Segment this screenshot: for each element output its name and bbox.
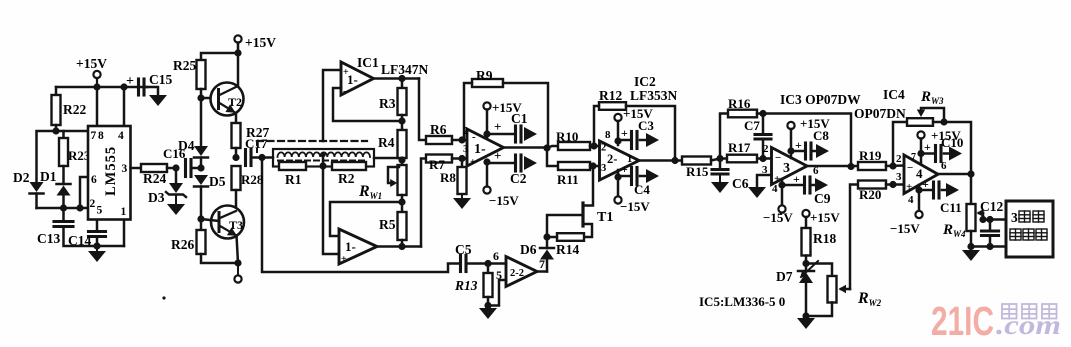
wire node to pin 7: [56, 130, 88, 133]
bottom rail (pins 2/6): [37, 207, 89, 210]
ground arrow of C1: [524, 127, 537, 141]
node C7 top: [759, 110, 766, 117]
resistor R24: [141, 164, 167, 172]
wire C12 bottom: [989, 236, 992, 247]
resistor R17: [727, 155, 757, 163]
svg-text:R18: R18: [813, 231, 836, 246]
ground arrow of C11: [942, 189, 946, 192]
wire op1a + input: [323, 70, 341, 141]
junction rail/pin8: [93, 83, 100, 90]
wire R3 to node: [401, 115, 404, 121]
svg-text:R9: R9: [476, 68, 493, 83]
wire R18 to D7 node: [805, 256, 808, 264]
wire base T3: [201, 219, 219, 221]
capacitor C12 stem: [989, 220, 992, 232]
node D6/R14/gate: [543, 233, 550, 240]
wire D7 top: [805, 264, 808, 272]
svg-text:-: -: [472, 131, 476, 143]
svg-text:R16: R16: [728, 96, 751, 111]
op-amp IC1c triangle: [467, 129, 504, 166]
svg-text:+: +: [470, 157, 476, 168]
resistor R6: [426, 136, 452, 144]
capacitor C4: [630, 168, 633, 185]
node R3/R4/feedback: [398, 117, 405, 124]
wire RW3 to output rail: [933, 122, 971, 174]
resistor R10: [558, 142, 590, 150]
svg-text:R17: R17: [728, 140, 751, 155]
wire pin3 to R24: [131, 167, 142, 170]
wire C17 to sensor node: [251, 156, 273, 159]
capacitor C17: [244, 150, 247, 166]
svg-text:3: 3: [463, 143, 469, 155]
wire R26 stem: [200, 219, 203, 230]
winding (slide wire): [278, 152, 371, 157]
wire D1 to bottom rail: [62, 196, 65, 209]
svg-text:+15V: +15V: [76, 56, 107, 71]
svg-text:D4: D4: [178, 138, 195, 153]
wire R15 to input node: [711, 159, 763, 161]
node emitter/output terminal: [234, 259, 241, 266]
IC 555 body: [88, 126, 131, 220]
wire RW2 bottom: [806, 303, 832, 317]
wire V+ stem (IC3): [790, 129, 793, 158]
junction rail/pin4: [120, 83, 127, 90]
node R1/R2 center: [319, 162, 326, 169]
wire to C10: [921, 152, 934, 155]
JFET T1 channel bar: [581, 203, 584, 226]
resistor R14: [557, 233, 584, 241]
resistor R2: [332, 162, 366, 170]
svg-text:−15V: −15V: [890, 221, 920, 236]
wire pin3 IC3 to ground: [757, 175, 772, 187]
svg-text:4: 4: [772, 183, 778, 195]
T2 emitter arrow: [225, 104, 237, 116]
svg-text:C5: C5: [455, 242, 472, 257]
wire R9 left to pin2: [464, 83, 472, 140]
JFET T1 drain wire: [584, 166, 594, 206]
resistor R13: [484, 273, 493, 297]
svg-text:C8: C8: [813, 128, 829, 143]
ground of pin3 IC3: [748, 187, 766, 198]
resistor R15: [682, 157, 711, 165]
svg-text:6: 6: [493, 249, 499, 263]
wire to C9: [782, 184, 803, 187]
svg-text:+: +: [621, 162, 628, 176]
wire R4 to RW1: [401, 158, 404, 165]
svg-text:−15V: −15V: [620, 199, 650, 214]
inner dashed line of sensor: [278, 160, 368, 162]
wire op1a - input (feedback): [333, 88, 402, 121]
svg-text:+: +: [621, 126, 628, 140]
svg-text:2: 2: [463, 125, 469, 137]
potentiometer RW2 wiper: [841, 288, 850, 291]
diode D1: [57, 183, 71, 186]
transistor T2: [211, 83, 244, 116]
node base T3 / R26: [197, 215, 204, 222]
wire V- stem (IC4): [918, 185, 921, 211]
node sensor-left: [258, 154, 265, 161]
wire R6 to pin2 node: [452, 139, 467, 142]
svg-text:R11: R11: [557, 172, 579, 187]
ground of R13: [487, 306, 489, 309]
resistor R19: [858, 162, 886, 170]
svg-text:R28: R28: [241, 172, 264, 187]
svg-text:C15: C15: [149, 72, 172, 87]
ground arrow of C2: [524, 156, 537, 170]
terminal -15V (IC2): [614, 196, 621, 203]
svg-text:7: 7: [91, 130, 97, 142]
wire RW1 to R5: [401, 195, 404, 212]
wire RW2 top: [806, 264, 832, 277]
T2 collector lead: [220, 86, 239, 95]
node V-/C9: [778, 181, 785, 188]
svg-text:R10: R10: [556, 129, 578, 144]
svg-text:2: 2: [90, 198, 96, 210]
svg-text:IC2: IC2: [634, 74, 656, 89]
op-amp IC2b triangle: [506, 257, 537, 287]
svg-text:2-: 2-: [607, 152, 617, 166]
power rail +15V (555 section): [56, 86, 147, 89]
svg-text:IC1: IC1: [357, 55, 379, 70]
svg-text:+: +: [906, 181, 912, 193]
node R22/R23/pin7: [52, 127, 59, 134]
wire to R10: [547, 146, 558, 148]
terminal +15V (IC4): [917, 131, 924, 138]
capacitor C7 stem bottom: [762, 139, 765, 159]
wire R19 to pin2 IC4: [886, 164, 904, 167]
wire +15V down to T2 collector: [237, 43, 240, 87]
wire to C3: [618, 139, 630, 142]
svg-text:1-: 1-: [345, 239, 356, 254]
wire C15 to ground: [144, 87, 158, 95]
wire R24 to node: [167, 167, 176, 170]
ground arrow of C4: [640, 175, 646, 178]
wire IC4 output: [938, 173, 971, 176]
wire V+ stem (IC4): [920, 139, 923, 165]
wire R11 to pin3 node: [590, 165, 600, 168]
svg-text:−: −: [775, 152, 781, 164]
resistor R8: [458, 167, 467, 194]
zener diode D7 (LM336): [798, 270, 814, 273]
svg-text:R24: R24: [143, 171, 166, 186]
wire pin1 down: [123, 220, 126, 247]
ground arrow of C8: [813, 150, 816, 153]
terminal -15V (IC4): [915, 211, 922, 218]
capacitor C16: [184, 160, 187, 177]
svg-text:C1: C1: [511, 111, 528, 126]
svg-text:+: +: [793, 172, 800, 186]
wire IC1c output: [504, 146, 548, 149]
node D7 ground / RW2 bottom: [802, 312, 809, 319]
op-amp IC4 triangle: [904, 155, 938, 194]
junction ground rail: [93, 242, 100, 249]
terminal -15V (IC1c): [483, 186, 490, 193]
capacitor C1: [514, 126, 517, 142]
potentiometer RW3 wiper: [921, 108, 944, 122]
resistor R5: [398, 212, 407, 240]
capacitor C15: [137, 79, 140, 95]
wire D4 chain from base node: [200, 98, 203, 146]
svg-text:+: +: [126, 74, 134, 89]
node V-/C11: [915, 186, 922, 193]
sensor box: [273, 149, 374, 167]
potentiometer RW1 wiper: [388, 167, 399, 183]
wire R8 stem: [461, 159, 464, 168]
svg-text:2: 2: [763, 143, 769, 155]
wire V+ stem (IC2): [617, 121, 620, 145]
node meter row 1: [979, 216, 986, 223]
node IC2a out: [671, 157, 678, 164]
svg-text:5: 5: [97, 205, 103, 217]
node pin3 IC4: [889, 181, 896, 188]
wire C6 to ground: [719, 174, 721, 182]
junction +15V/R25: [234, 49, 241, 56]
svg-text:T2: T2: [228, 95, 242, 109]
T3 collector lead: [220, 211, 236, 218]
ground (555): [96, 246, 98, 251]
svg-text:C14: C14: [68, 233, 91, 248]
wire R16 right to output rail: [757, 114, 851, 168]
svg-text:−: −: [907, 162, 913, 174]
capacitor C5: [459, 256, 462, 272]
wire to C8: [791, 150, 804, 153]
svg-text:7: 7: [539, 257, 545, 271]
ground of C15: [149, 95, 167, 106]
wire D3 to ground: [175, 195, 177, 205]
wire R13 stem: [487, 264, 490, 274]
wire C13 stem: [62, 208, 65, 221]
wire R12 right rail: [626, 106, 675, 161]
svg-text:2: 2: [601, 143, 606, 154]
terminal +15V (T2): [234, 35, 241, 42]
wire R8 to ground: [461, 194, 463, 198]
resistor R7: [426, 155, 452, 163]
op-amp IC1a triangle: [341, 62, 374, 95]
wire pin 6: [80, 177, 88, 208]
wire to C1: [487, 133, 515, 136]
wire op1a output: [374, 77, 420, 80]
node RW4 ground: [967, 243, 974, 250]
svg-text:R12: R12: [599, 88, 622, 103]
wire R26 to emitter node: [201, 254, 238, 263]
svg-text:.com: .com: [996, 310, 1061, 340]
wire IC3 output: [807, 165, 858, 168]
wire R23 to D1: [62, 166, 65, 184]
terminal +15V (555): [93, 71, 100, 78]
svg-text:C12: C12: [980, 199, 1003, 214]
meter text hanzi shu: [1010, 229, 1021, 240]
wire R28 to T3 collector: [235, 190, 238, 211]
node op1a out / R3: [398, 75, 405, 82]
ground arrow of C10: [944, 152, 949, 155]
wire D4 to C16 node: [200, 158, 203, 169]
svg-text:R5: R5: [379, 217, 396, 232]
svg-text:C9: C9: [814, 191, 831, 206]
svg-text:D2: D2: [13, 170, 30, 185]
ground arrow of C3: [640, 139, 646, 142]
wire op1b out to R7 branch: [421, 159, 426, 247]
wire D6 to output pin7: [546, 237, 549, 248]
output terminal (T3): [237, 263, 239, 275]
svg-text:R22: R22: [63, 102, 86, 117]
svg-text:C6: C6: [732, 176, 749, 191]
node RW1/R5/feedback2: [398, 198, 405, 205]
wire R12 left rail: [594, 106, 599, 146]
svg-text:8: 8: [98, 130, 104, 142]
meter text hanzi xian: [1023, 229, 1034, 240]
wire R5 to output node: [401, 240, 404, 246]
JFET T1 gate wire: [547, 215, 583, 237]
node pin2 IC4 / RW3 rail: [889, 162, 896, 169]
wire center tap to op1-2 + input: [323, 166, 339, 254]
wire R18 stem: [805, 217, 808, 228]
resistor R12: [599, 102, 626, 110]
node V-/C4: [614, 173, 621, 180]
svg-text:IC4: IC4: [883, 87, 905, 102]
wire T3 emitter down: [237, 236, 239, 264]
node R27/C17/R28: [232, 154, 239, 161]
wire center tap column: [322, 155, 325, 167]
potentiometer RW3 body: [907, 118, 933, 126]
resistor R20: [858, 181, 886, 189]
meter box (3.5 digit display): [1006, 201, 1053, 257]
wire R10 to pin2 node: [590, 145, 600, 148]
wire C16 to D4/D5 node: [191, 167, 201, 170]
svg-text:R8: R8: [440, 170, 456, 185]
terminal +15V (IC3): [787, 122, 794, 129]
svg-text:C10: C10: [941, 135, 963, 150]
node base T2 / D4: [197, 94, 204, 101]
wire R27 to node: [235, 148, 238, 158]
diode D4: [194, 146, 208, 156]
diode D2: [30, 182, 44, 192]
svg-text:3: 3: [783, 161, 790, 176]
wire V+ stem (IC1c): [486, 110, 489, 138]
wire C13 to ground rail: [64, 227, 125, 247]
svg-text:+: +: [341, 254, 347, 265]
svg-text:OP07DN: OP07DN: [854, 106, 906, 121]
wire to C11: [919, 189, 932, 192]
svg-text:R4: R4: [378, 135, 395, 150]
ground of D7: [805, 316, 807, 318]
wire D2 to bottom rail: [35, 194, 38, 209]
meter text hanzi biao: [1036, 229, 1047, 240]
svg-text:LF347N: LF347N: [381, 62, 429, 77]
svg-text:R13: R13: [454, 278, 478, 293]
capacitor C7 stem top: [762, 114, 765, 135]
wire RW2 wiper to R20: [850, 185, 858, 290]
node V+/C10: [917, 150, 924, 157]
node pin3 IC2a / T1 drain: [589, 162, 596, 169]
svg-text:3: 3: [1011, 210, 1018, 225]
wire C14 to ground rail: [96, 237, 99, 247]
zener diode D6: [540, 247, 554, 250]
svg-text:−15V: −15V: [489, 193, 519, 208]
wire V- stem (IC2): [617, 170, 620, 197]
wire R13 to ground node: [487, 297, 490, 306]
capacitor C6 stem: [719, 159, 722, 170]
terminal +15V (IC1c): [483, 102, 490, 109]
wire D5 to T3 base node: [200, 187, 203, 220]
node IC3 out / R16 rail / R19: [847, 163, 854, 170]
resistor R28: [232, 166, 241, 190]
svg-text:C11: C11: [940, 200, 962, 215]
svg-text:3: 3: [601, 163, 606, 174]
T3 emitter arrow: [227, 227, 239, 239]
potentiometer RW2 body: [828, 276, 837, 303]
wire sensor right to R4/RW1 node: [374, 157, 402, 160]
wire R23 stem: [62, 131, 65, 138]
capacitor C6: [712, 168, 728, 171]
node IC1c out / R10 / R11: [543, 144, 550, 151]
resistor R3: [398, 88, 407, 115]
svg-text:+15V: +15V: [810, 210, 840, 225]
potentiometer RW1 body: [398, 165, 407, 195]
svg-text:+: +: [795, 138, 802, 152]
svg-text:C7: C7: [744, 118, 760, 133]
junction pin6-branch/bottom rail: [76, 204, 83, 211]
wire to R25: [201, 53, 238, 60]
svg-text:+: +: [494, 148, 501, 163]
resistor R26: [197, 230, 206, 254]
node RW3 right: [940, 118, 947, 125]
node V+/C8: [787, 147, 794, 154]
shield dashed line: [257, 140, 367, 142]
svg-text:C4: C4: [634, 182, 650, 197]
wire sensor-left down (long return): [262, 158, 459, 273]
wire C5 to node: [466, 262, 506, 265]
svg-text:1: 1: [121, 206, 127, 218]
wire R22 to node: [55, 125, 58, 131]
svg-text:D5: D5: [209, 174, 226, 189]
T2 emitter lead: [220, 103, 236, 113]
svg-text:+15V: +15V: [245, 35, 276, 50]
svg-text:D1: D1: [40, 169, 57, 184]
wire op1b output: [377, 245, 421, 248]
capacitor C9: [803, 177, 806, 193]
svg-text:7: 7: [911, 152, 916, 163]
resistor R1: [279, 162, 306, 170]
node R24/D3/C16: [172, 164, 179, 171]
svg-text:LM555: LM555: [103, 146, 119, 196]
node C5/R13/pin6: [484, 260, 491, 267]
wire to C2: [487, 162, 515, 165]
wire D3 stem: [175, 168, 178, 183]
capacitor C11: [932, 182, 935, 198]
op-amp IC2a triangle: [600, 141, 640, 180]
diode D5: [194, 175, 208, 185]
svg-text:C13: C13: [37, 231, 60, 246]
resistor R18: [802, 228, 811, 256]
resistor R9: [472, 79, 503, 87]
wire to R6 branch: [419, 79, 426, 141]
svg-text:LF353N: LF353N: [630, 88, 678, 103]
wire pin5 to ground node: [488, 280, 506, 306]
ground of D3: [167, 204, 185, 215]
node C12 top: [986, 216, 993, 223]
wire R4 stem: [401, 121, 404, 130]
ground arrow of C9: [812, 184, 815, 187]
svg-text:R25: R25: [173, 58, 196, 73]
resistor R4: [398, 130, 407, 158]
svg-text:4: 4: [908, 194, 914, 206]
svg-text:8: 8: [605, 129, 611, 141]
svg-text:1-: 1-: [474, 142, 486, 157]
wire output down to RW4: [970, 174, 973, 204]
svg-text:21IC: 21IC: [931, 298, 994, 344]
wire R14 left to D6 node: [547, 236, 557, 239]
svg-text:D3: D3: [148, 190, 165, 205]
